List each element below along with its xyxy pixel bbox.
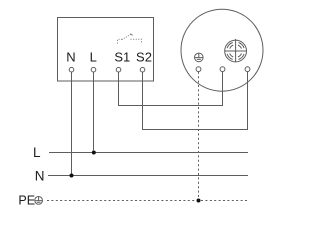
sensor terminal PE	[196, 67, 201, 72]
terminal L (box)	[91, 67, 96, 72]
wire N (box to N bus)	[71, 72, 73, 174]
sensor body circle	[181, 9, 263, 91]
junction L	[92, 151, 96, 155]
relay lever	[122, 34, 131, 40]
sensor earth marker	[195, 53, 204, 62]
svg-text:PE: PE	[18, 194, 35, 208]
svg-text:N: N	[35, 168, 45, 183]
sensor terminal right	[245, 67, 250, 72]
terminal N (box)	[69, 67, 74, 72]
wire L (box to L bus)	[93, 72, 95, 150]
svg-text:L: L	[33, 145, 41, 160]
relay contact symbol (dotted) inside box	[118, 39, 142, 43]
N bus line	[48, 175, 248, 177]
device box U1	[58, 18, 154, 82]
terminal S1 (box)	[116, 67, 121, 72]
sensor terminal mid	[220, 67, 225, 72]
L bus line	[49, 152, 248, 154]
terminal S2 (box)	[140, 67, 145, 72]
wire PE dashed (sensor to PE bus)	[198, 72, 200, 199]
svg-text:S2: S2	[136, 50, 152, 65]
junction PE	[197, 199, 201, 203]
wire S2 to sensor right terminal	[143, 72, 248, 130]
relay lever tick	[130, 34, 132, 36]
wire S1 to sensor mid terminal	[119, 72, 223, 106]
PE label earth icon	[35, 197, 43, 205]
svg-text:S1: S1	[114, 50, 130, 65]
junction N	[70, 174, 74, 178]
svg-text:N: N	[66, 50, 75, 65]
svg-text:L: L	[90, 50, 97, 65]
PE bus line (dotted)	[47, 200, 249, 202]
sensor lens (quadrant circle)	[225, 39, 247, 62]
